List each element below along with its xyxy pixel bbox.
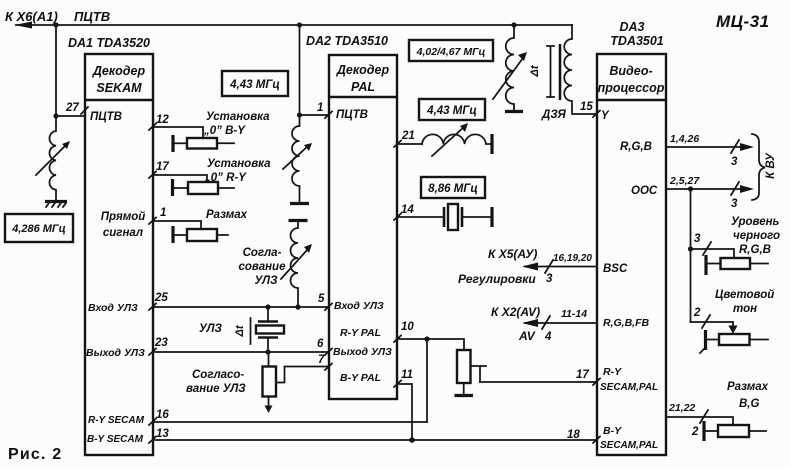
svg-text:сигнал: сигнал (103, 227, 143, 239)
svg-text:Y: Y (601, 110, 610, 122)
svg-text:Цветовой: Цветовой (715, 289, 774, 301)
svg-text:R,G,B: R,G,B (739, 244, 771, 256)
svg-text:R-Y SECAM: R-Y SECAM (88, 415, 145, 426)
ground of L1 (45, 200, 67, 203)
svg-text:Уровень: Уровень (731, 216, 780, 228)
svg-text:Δt: Δt (234, 324, 246, 337)
inductor L1 variable 4,286 МГц (49, 116, 56, 200)
svg-text:R,G,B,FB: R,G,B,FB (603, 317, 649, 329)
svg-text:4,43 МГц: 4,43 МГц (426, 105, 477, 117)
svg-text:16,19,20: 16,19,20 (553, 253, 592, 264)
svg-text:R,G,B: R,G,B (620, 141, 652, 153)
wire DA2 pin 14 (397, 216, 442, 218)
svg-text:К Х5(АУ): К Х5(АУ) (488, 247, 537, 261)
svg-text:16: 16 (156, 409, 169, 421)
potentiometer R7 Цветовой тон (700, 289, 774, 353)
svg-text:5: 5 (318, 293, 325, 305)
svg-text:BSC: BSC (603, 263, 628, 275)
svg-text:К ВУ: К ВУ (765, 152, 777, 179)
potentiometer R4 Согласование УЛЗ (186, 352, 329, 413)
node junction УЛЗ top (265, 304, 270, 309)
svg-text:Вход УЛЗ: Вход УЛЗ (334, 300, 384, 312)
node junction L3 bottom (295, 304, 300, 309)
node junction pin11/B-Y bus (409, 437, 415, 443)
node junction УЛЗ bottom / R4 top (265, 349, 270, 354)
potentiometer R6 Уровень черного R,G,B (706, 216, 780, 275)
svg-text:17: 17 (156, 161, 169, 173)
svg-text:13: 13 (156, 428, 169, 440)
svg-text:ПЦТВ: ПЦТВ (74, 9, 110, 24)
inductor L2 (feed of DA2 pin 1) (283, 115, 312, 204)
node junction bus/L5 branch (511, 22, 516, 27)
inductor L5 variable 4,02/4,67 (493, 25, 527, 112)
svg-text:3: 3 (731, 156, 738, 168)
wire DA2 pin 10 R-Y PAL (397, 339, 464, 350)
potentiometer R5 (R-Y level) (455, 350, 487, 396)
wire DA2 pin 11 B-Y PAL (397, 384, 412, 440)
svg-text:10: 10 (401, 321, 414, 333)
svg-text:ПЦТВ: ПЦТВ (90, 111, 122, 123)
value label 4,43 МГц (left) (222, 71, 288, 96)
svg-text:Выход УЛЗ: Выход УЛЗ (86, 347, 145, 359)
node junction DA2 pin 1 (297, 112, 302, 117)
svg-text:SECAM,PAL: SECAM,PAL (600, 440, 658, 451)
svg-text:вание УЛЗ: вание УЛЗ (186, 383, 246, 395)
potentiometer R1 Установка „0" B-Y (173, 111, 270, 152)
IC U1 DA1 TDA3520 body (85, 54, 153, 455)
potentiometer R8 Размах B,G (704, 381, 769, 441)
IC U3 DA3 TDA3501 body (597, 54, 666, 455)
wire DA3 pins 21,22 Размах (666, 402, 733, 438)
wire to DA1 pin 27 (56, 115, 85, 117)
svg-text:B-Y PAL: B-Y PAL (340, 372, 381, 384)
svg-text:2,5,27: 2,5,27 (669, 175, 700, 187)
wire to R6 Уровень черного (691, 233, 735, 258)
svg-text:R-Y PAL: R-Y PAL (340, 327, 381, 339)
svg-text:ДЗЯ: ДЗЯ (541, 109, 566, 121)
net К Х2(AV) arrow (491, 305, 597, 343)
svg-text:3: 3 (546, 273, 553, 285)
wire DA2 pin 21 (397, 143, 422, 145)
svg-text:AV: AV (518, 329, 536, 343)
node junction bus/DA1 branch (53, 22, 58, 27)
wire DA1 pin 1 (153, 221, 201, 229)
svg-text:Выход УЛЗ: Выход УЛЗ (333, 346, 392, 358)
potentiometer R2 Установка „0" R-Y (173, 158, 272, 196)
value label 4,286 МГц (5, 214, 73, 242)
svg-text:ООС: ООС (631, 185, 658, 197)
svg-text:DA2 TDA3510: DA2 TDA3510 (306, 34, 388, 48)
svg-text:3: 3 (694, 233, 701, 245)
svg-text:УЛЗ: УЛЗ (255, 275, 279, 287)
svg-text:21,22: 21,22 (668, 402, 695, 414)
svg-text:1: 1 (160, 207, 166, 219)
svg-text:Размах: Размах (727, 381, 769, 393)
svg-text:Регулировки: Регулировки (458, 272, 536, 286)
svg-text:14: 14 (401, 204, 414, 216)
svg-text:7: 7 (318, 354, 325, 366)
wire DA1 branch vertical (55, 25, 57, 116)
wire DA1 pin 12 (153, 127, 203, 138)
svg-text:8,86 МГц: 8,86 МГц (428, 183, 478, 195)
svg-text:Видео-: Видео- (609, 64, 652, 78)
svg-text:23: 23 (154, 337, 168, 349)
svg-text:Вход УЛЗ: Вход УЛЗ (88, 302, 138, 314)
Δt annotation for УЛЗ (234, 318, 251, 344)
wire DA1 pin 13 B-Y SECAM bus (153, 439, 597, 441)
svg-text:2: 2 (693, 307, 701, 319)
svg-text:Установка: Установка (206, 111, 270, 123)
svg-text:PAL: PAL (351, 80, 375, 94)
node junction ООС branch (688, 186, 693, 191)
svg-text:Установка: Установка (207, 158, 271, 170)
wire R5 wiper to DA3 pin 17 (480, 381, 597, 383)
wire ООС down branch (690, 189, 692, 322)
svg-text:ПЦТВ: ПЦТВ (336, 109, 368, 121)
svg-text:Размах: Размах (206, 209, 248, 221)
svg-text:Согла-: Согла- (243, 247, 282, 259)
inductor L4 variable (pin 21) (422, 123, 492, 156)
wire R-Y bus riser (426, 339, 428, 422)
wire DA1 pin 17 (153, 175, 207, 182)
svg-text:МЦ-31: МЦ-31 (716, 12, 770, 31)
svg-text:21: 21 (401, 130, 415, 142)
svg-text:4,43 МГц: 4,43 МГц (229, 79, 280, 91)
svg-text:12: 12 (156, 114, 169, 126)
svg-text:1: 1 (317, 102, 323, 114)
wire DA2 branch vertical (299, 25, 301, 115)
svg-text:SEKAM: SEKAM (96, 81, 142, 95)
value label 4,43 МГц (middle) (419, 99, 485, 120)
svg-text:6: 6 (317, 338, 324, 350)
svg-text:R-Y: R-Y (603, 366, 622, 378)
node junction pin10/R-Y bus (424, 336, 429, 341)
svg-text:УЛЗ: УЛЗ (199, 323, 223, 335)
delay line УЛЗ (199, 307, 284, 352)
svg-text:27: 27 (65, 102, 79, 114)
svg-text:3: 3 (731, 198, 738, 210)
svg-text:11-14: 11-14 (561, 308, 587, 320)
svg-text:17: 17 (576, 369, 589, 381)
svg-text:B-Y: B-Y (603, 425, 622, 437)
svg-text:2: 2 (691, 426, 699, 438)
svg-text:Прямой: Прямой (101, 211, 146, 223)
wire DA1 pin 25 to DA2 pin 5 (153, 306, 329, 308)
svg-text:Рис. 2: Рис. 2 (8, 446, 62, 463)
brace К ВУ (752, 134, 777, 200)
Δt annotation for ДЗЯ (529, 46, 554, 97)
arrow to connector X6 (14, 22, 32, 29)
svg-text:тон: тон (733, 303, 757, 315)
svg-text:К Х2(AV): К Х2(AV) (491, 305, 540, 319)
svg-text:B-Y SECAM: B-Y SECAM (87, 434, 144, 445)
delay line ДЗЯ (541, 25, 597, 121)
wire DA3 pins 1,4,26 R,G,B output (666, 133, 754, 168)
svg-text:черного: черного (733, 230, 780, 242)
svg-text:4: 4 (544, 331, 552, 343)
svg-text:DA1 TDA3520: DA1 TDA3520 (68, 36, 150, 50)
svg-text:сование: сование (239, 261, 287, 273)
svg-text:SECAM,PAL: SECAM,PAL (600, 382, 658, 393)
svg-text:15: 15 (580, 101, 593, 113)
svg-text:4,02/4,67 МГц: 4,02/4,67 МГц (416, 46, 486, 58)
svg-text:Согласо-: Согласо- (192, 369, 244, 381)
svg-text:„0” B-Y: „0” B-Y (203, 125, 246, 137)
svg-text:1,4,26: 1,4,26 (670, 133, 699, 145)
node junction Уровень черного branch (688, 246, 693, 251)
IC U2 DA2 TDA3510 body (329, 55, 397, 399)
svg-text:4,286 МГц: 4,286 МГц (11, 223, 66, 235)
crystal ZQ1 (444, 204, 492, 230)
svg-text:B,G: B,G (739, 398, 760, 410)
inductor L3 Согласование УЛЗ (variable) (239, 221, 312, 308)
value label 4,02/4,67 МГц (409, 40, 493, 61)
svg-text:Δt: Δt (529, 64, 541, 77)
wire to DA2 pin 1 (300, 114, 330, 116)
svg-text:Декодер: Декодер (92, 64, 146, 78)
svg-text:11: 11 (401, 369, 413, 381)
value label 8,86 МГц (421, 177, 485, 198)
node junction bus/DA2 branch (297, 22, 302, 27)
net К Х5(АУ) Регулировки arrow (458, 247, 597, 286)
wire to R7 Цветовой тон (691, 307, 738, 334)
svg-text:DA3: DA3 (619, 20, 644, 34)
wire DA1 pin 23 to DA2 pin 6 (153, 351, 329, 353)
potentiometer R3 Размах (173, 209, 248, 243)
svg-text:18: 18 (567, 429, 580, 441)
svg-text:Декодер: Декодер (336, 63, 390, 77)
wire DA3 pins 2,5,27 ООС (666, 175, 754, 210)
svg-text:TDA3501: TDA3501 (610, 34, 664, 48)
svg-text:процессор: процессор (598, 81, 665, 95)
svg-text:25: 25 (154, 292, 168, 304)
wire top bus to X6 (16, 24, 572, 26)
wire DA1 pin 16 R-Y SECAM bus (153, 421, 427, 423)
node junction pin27 (53, 113, 58, 118)
